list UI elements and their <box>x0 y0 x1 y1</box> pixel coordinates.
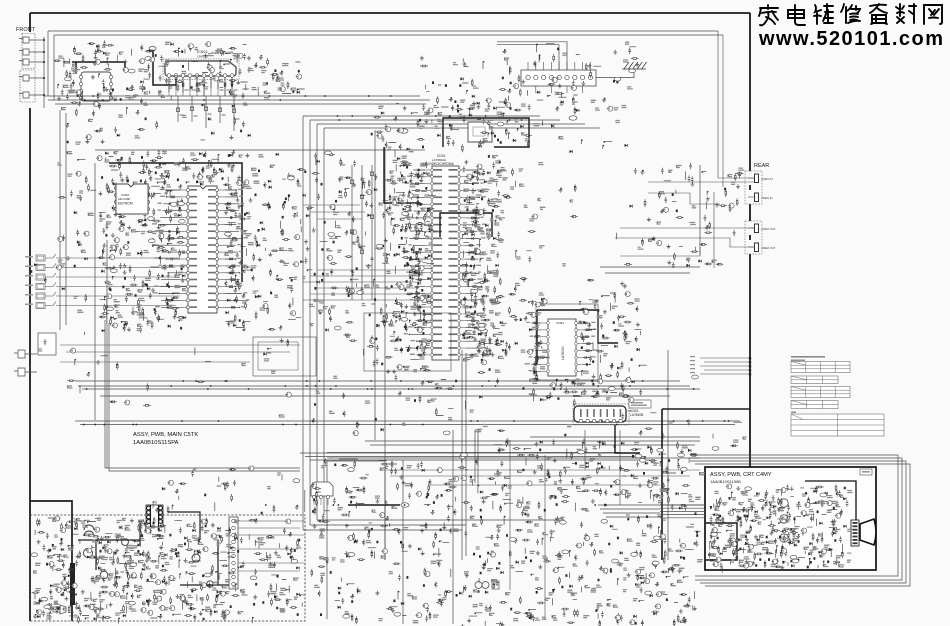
front connector vertical bus wire <box>44 31 54 108</box>
IC201 internal pin-name smudges <box>434 169 458 356</box>
AC plug symbol <box>52 605 66 614</box>
thick horizontal bus y=409 to CRT board <box>662 408 750 410</box>
svg-text:AUDIO IN: AUDIO IN <box>761 177 773 181</box>
nested loop verticals left of video chroma section <box>303 116 324 530</box>
Chinese site title 家电维修资料网 (drawn strokes) <box>759 5 778 25</box>
svg-text:VIDEO IN: VIDEO IN <box>761 196 773 200</box>
table cell text smudges <box>797 364 850 429</box>
component strings right of IC391 <box>583 322 593 372</box>
small components cluster: around tuner connector <box>499 44 640 112</box>
CRT thick top wire <box>805 481 856 520</box>
bottom horizontal bus group (video out lines) <box>75 381 700 396</box>
small components cluster: between micro and IC201 <box>249 153 342 332</box>
small components cluster: below IC201 bus area <box>342 375 631 432</box>
small components cluster: IC201 far left sparse <box>343 160 397 373</box>
svg-text:ASSY, PWB, MAIN C5TK: ASSY, PWB, MAIN C5TK <box>133 432 198 438</box>
component strings left of IC301 <box>156 190 180 308</box>
CRT harness nested wires <box>690 455 910 586</box>
component strings right of IC201 (resistors/capacitors) <box>466 170 482 356</box>
small components cluster: lower-left mid area <box>96 338 315 423</box>
long bus wire y=96 (audio B+ rail) <box>44 95 420 97</box>
CRT board outline box <box>705 467 876 570</box>
op-amp IC601 LA4285 AUDIO AMP body <box>163 59 239 80</box>
fuse F801 (filled) <box>70 563 75 605</box>
small components cluster: power supply primary <box>32 517 236 624</box>
svg-text:REAR: REAR <box>754 163 769 169</box>
front jack connector dashed box (upper) <box>22 34 35 69</box>
vertical wire pair x=462 <box>327 350 478 624</box>
svg-text:ASSY, PWB, CRT C4MY: ASSY, PWB, CRT C4MY <box>710 472 772 478</box>
table 1 (chassis type) <box>791 362 850 373</box>
rear VIDEO OUT RCA jack <box>755 243 759 252</box>
small components cluster: bottom center area <box>311 458 462 624</box>
small components cluster: IF input top area <box>420 56 511 117</box>
small components cluster: vert deflection right <box>580 292 647 398</box>
small components cluster: IC201 near band right <box>460 160 507 374</box>
svg-text:IF/VIDEO/CHROMA: IF/VIDEO/CHROMA <box>425 162 455 166</box>
thick wire from IC501 down <box>615 425 640 453</box>
component strings left of IC201 (resistors/capacitors) <box>409 170 426 356</box>
audio output coupling parts <box>176 96 235 131</box>
small components cluster: audio switch area <box>53 40 155 104</box>
bottom horizontal bus group 2 (heater/ABL lines) <box>75 421 740 460</box>
vertical wire x=107 POWER ON/OFF line <box>106 240 108 468</box>
EEPROM IC302 24LC08P body <box>116 184 148 214</box>
IC501 LA7840B sync/output IC body (rounded) <box>574 406 626 422</box>
front jack connector dashed box (lower) <box>20 70 35 102</box>
IC301 internal pin-name smudges <box>190 189 215 308</box>
IC501 internal pin labels <box>580 409 621 417</box>
small components cluster: right of loop <box>542 101 627 154</box>
wires from strip up-left to IF section <box>497 42 567 70</box>
table 5 (notes, wide) <box>791 412 796 413</box>
component strings right of IC301 <box>225 190 244 308</box>
sub-circuit box outline (left keys net) <box>253 337 316 376</box>
CRT feed wire bundle long <box>598 505 705 517</box>
IC601 pins 1-10 <box>167 74 171 78</box>
left area horizontal wires <box>60 345 300 362</box>
small components cluster: deflection/flyback dense <box>458 438 701 626</box>
main PWB inner outline (bottom-left corner) <box>105 320 300 471</box>
small components cluster: around IC601 audio amp <box>158 43 251 100</box>
IC201 pins 1-28 <box>431 169 434 172</box>
thick AC input line <box>30 501 72 621</box>
IC391 pins <box>547 322 550 325</box>
CRT neck fan symbol <box>860 519 876 545</box>
main schematic outer border (left edge) <box>29 13 31 621</box>
small components cluster: above micro <box>186 151 224 185</box>
wires from power connector CN801 <box>238 521 305 571</box>
small components cluster: rear AV jacks area <box>640 163 743 268</box>
CRT harness wires into right bus <box>700 358 750 374</box>
vertical wire x=95 (SDA line) <box>60 110 95 420</box>
svg-text:LA7840B: LA7840B <box>630 413 643 417</box>
sub-circuit box outline (vertical section) <box>536 304 598 380</box>
video amp transistors Q1-Q3 on CRT board <box>780 499 788 507</box>
power supply isolation dashed box <box>30 515 305 621</box>
rear AV output wires <box>615 228 754 256</box>
small components cluster: micro/EEPROM area right <box>223 150 252 331</box>
microcontroller IC301 body <box>188 186 217 313</box>
junction dots on long buses <box>83 95 730 506</box>
small components cluster: left of micro sparse <box>58 159 96 243</box>
svg-text:1AA0B10S11SPA: 1AA0B10S11SPA <box>133 440 179 446</box>
main schematic outer border (right edge) <box>749 13 751 468</box>
CRT board corner ref box <box>860 469 872 475</box>
small components cluster: CRT board parts <box>708 484 852 572</box>
nested loop horizontals from tuner section <box>303 116 600 128</box>
small components cluster: power area above box <box>153 469 299 514</box>
left small box (jack detail) <box>38 333 56 355</box>
headphone jack symbols left edge <box>14 350 37 358</box>
POWER ON/OFF tiny label <box>339 458 358 460</box>
small components cluster: above IC201 <box>373 102 532 158</box>
thick vertical bus x=662 to CRT <box>661 409 663 560</box>
chassis ground hatch symbol <box>622 62 647 69</box>
POWER ON/OFF rotated label smudge <box>106 300 107 324</box>
small components cluster: mid right sparse <box>559 168 637 288</box>
vertical wire x=700 rear section <box>699 165 701 255</box>
thick wire video path <box>384 147 420 203</box>
junction dots on front bus <box>43 39 45 96</box>
thick audio wire at IC601 pin 2 <box>153 50 176 85</box>
svg-text:24LC08P: 24LC08P <box>118 197 131 201</box>
thick digital bus from micro <box>109 163 242 282</box>
svg-text:EEPROM: EEPROM <box>118 202 133 206</box>
degauss coil + plug <box>475 582 489 589</box>
component strings left of IC391 <box>531 322 541 371</box>
front key switches SW1-SW6 <box>36 255 45 261</box>
svg-text:VIDEO OUT: VIDEO OUT <box>761 246 776 250</box>
small components cluster: IC201 far right sparse <box>502 168 536 373</box>
wire bundle into IC201 left pins <box>303 270 420 300</box>
small components cluster: below audio section <box>65 102 250 144</box>
svg-text:1AA0B10S1150B: 1AA0B10S1150B <box>710 479 741 484</box>
svg-text:AUDIO OUT: AUDIO OUT <box>761 227 776 231</box>
small components cluster: right mid sparse <box>639 413 743 467</box>
bottom area extra long wires <box>380 430 700 620</box>
rear AUDIO IN RCA jack <box>755 174 759 183</box>
rear AV input wires <box>648 31 754 268</box>
svg-text:IC391: IC391 <box>556 321 564 325</box>
svg-text:LA78040: LA78040 <box>561 346 565 360</box>
power connector CN801 strip <box>229 517 238 589</box>
nested loop bottom returns <box>303 520 560 530</box>
CRT wire bundle from main board <box>660 505 705 518</box>
thick audio signal wire from switch to amp <box>72 62 125 73</box>
table 2 <box>791 376 838 384</box>
small components cluster: left key column area <box>30 243 90 393</box>
long vertical wires center <box>95 130 700 560</box>
long bus wire y=104 <box>55 103 426 105</box>
audio input switch IC (8-pin, rounded) <box>81 72 111 101</box>
main PWB inner outline (double line, top) <box>48 31 723 35</box>
replacement transistor table title <box>791 356 825 358</box>
svg-text:www.520101.com: www.520101.com <box>758 28 943 50</box>
svg-text:IC601: IC601 <box>197 49 208 54</box>
main schematic outer border (top edge) <box>30 12 750 14</box>
rear input pair dashed outline <box>745 171 762 204</box>
rear VIDEO IN RCA jack <box>755 193 759 202</box>
IC201 body <box>432 166 459 360</box>
heatsink note box <box>629 400 651 408</box>
small oval connector marks center <box>400 129 408 133</box>
CRT socket pin strip <box>851 520 859 546</box>
small components cluster: IC201 near band left <box>390 157 437 374</box>
IC301 pins <box>187 189 190 192</box>
thick loop notch filter <box>440 213 492 237</box>
long bus wire y=100 <box>48 99 430 101</box>
power section horizontal wires <box>327 437 700 461</box>
sub-circuit box outline (chroma trap) <box>364 313 451 371</box>
svg-text:FRONT: FRONT <box>16 27 36 33</box>
IC391 LA78040 vertical deflection IC body <box>548 319 576 376</box>
table 4 <box>791 401 838 409</box>
small components cluster: speaker out / right of amp <box>241 55 305 96</box>
thick B+ wire power area <box>348 504 400 506</box>
thick wires inside power supply <box>78 512 230 585</box>
CRT inner thick sub-box <box>706 523 737 560</box>
front panel jack symbols J1-J5 <box>19 37 44 43</box>
SAW filter / tuner sub-block <box>468 122 492 142</box>
thick IF loop wire <box>443 118 529 147</box>
rear output pair dashed outline <box>745 221 762 254</box>
rear AUDIO OUT RCA jack <box>755 224 759 233</box>
key matrix wires to microcontroller <box>56 258 180 306</box>
thick wire to IC391 <box>537 310 618 364</box>
switching transformer T801 <box>146 505 163 527</box>
vertical component strings left of IC201 <box>350 165 373 300</box>
connector strip pin stub wires <box>527 62 529 70</box>
small components cluster: vert deflection below <box>545 379 582 399</box>
big filter capacitors in power supply <box>84 539 214 588</box>
tuner/IF connector strip CN201 <box>521 70 596 86</box>
wire from strip to chassis ground <box>596 69 634 78</box>
small components cluster: power supply secondary <box>232 519 306 624</box>
table 3 <box>791 387 850 398</box>
small components cluster: micro/EEPROM area left <box>97 150 186 334</box>
regulator IC801 heatsink outline <box>311 482 333 496</box>
wires upper-left of IC201 <box>303 205 365 219</box>
small components cluster: vert deflection left <box>528 298 549 402</box>
component strings below IC601 pins <box>169 77 232 95</box>
EEPROM IC302 body (clean overpaint) <box>116 184 148 214</box>
